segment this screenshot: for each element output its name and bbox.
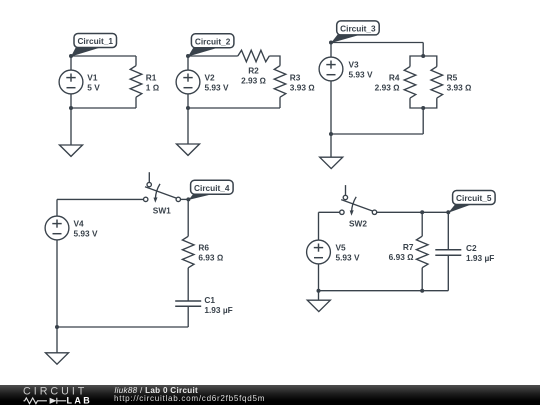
wire: switch to node: [180, 198, 188, 200]
wire: node to ground: [56, 327, 58, 353]
svg-text:V2: V2: [205, 73, 216, 83]
svg-text:5 V: 5 V: [87, 83, 100, 93]
wire: node to ground: [330, 134, 332, 157]
voltage source V3: [319, 57, 343, 81]
switch SW1: [144, 172, 181, 203]
wire bottom: node to R1: [71, 107, 136, 109]
node dot after switch: [186, 197, 190, 201]
svg-text:R2: R2: [248, 66, 259, 76]
junction dot parallel top: [421, 54, 425, 58]
svg-text:C2: C2: [466, 243, 477, 253]
wire: R5 bottom to junction: [423, 98, 437, 108]
svg-text:C1: C1: [204, 295, 215, 305]
svg-text:5.93 V: 5.93 V: [336, 253, 360, 263]
wire: V5 top stub: [318, 212, 320, 240]
svg-text:V1: V1: [87, 73, 98, 83]
node dot bottom-left: [329, 132, 333, 136]
node dot bottom: [69, 106, 73, 110]
node A dot top: [69, 54, 73, 58]
node dot bottom: [186, 106, 190, 110]
svg-text:V5: V5: [336, 243, 347, 253]
svg-text:6.93 Ω: 6.93 Ω: [198, 253, 223, 263]
svg-text:V4: V4: [74, 219, 85, 229]
svg-text:Circuit_3: Circuit_3: [340, 24, 376, 34]
resistor R3: [274, 66, 286, 98]
svg-text:Circuit_2: Circuit_2: [195, 37, 231, 47]
ground: [177, 144, 200, 155]
wire: V1 bottom to bottom node: [70, 94, 72, 108]
flag Circuit_1 box: [74, 34, 117, 48]
wire: corner down to C2: [447, 212, 449, 250]
svg-text:6.93 Ω: 6.93 Ω: [389, 252, 414, 262]
svg-text:1.93 µF: 1.93 µF: [466, 253, 494, 263]
junction dot R7 top: [420, 210, 424, 214]
wire: node to ground: [187, 108, 189, 144]
wire: node down to V1 top: [70, 56, 72, 70]
ground: [320, 157, 343, 168]
footer text: [110, 385, 410, 405]
svg-text:Circuit_4: Circuit_4: [194, 183, 230, 193]
wire top: node to parallel pair: [331, 42, 423, 44]
wire top: V4 to switch: [57, 198, 144, 200]
svg-text:R7: R7: [403, 242, 414, 252]
capacitor C2: [435, 250, 461, 256]
wire: V4 top stub: [56, 199, 58, 216]
svg-text:LAB: LAB: [67, 395, 93, 405]
svg-text:5.93 V: 5.93 V: [349, 70, 373, 80]
node dot top-left: [329, 41, 333, 45]
flag Circuit_4 box: [191, 180, 234, 194]
svg-text:2.93 Ω: 2.93 Ω: [241, 76, 266, 86]
switch SW2: [340, 185, 377, 216]
ground: [307, 300, 330, 311]
svg-text:R5: R5: [447, 73, 458, 83]
wire: node down to V3: [330, 43, 332, 58]
wire: top junction split left: [410, 56, 423, 67]
flag Circuit_2 pointer: [188, 48, 217, 57]
svg-text:5.93 V: 5.93 V: [74, 229, 98, 239]
wire top: node to R2: [188, 55, 238, 57]
wire: node down to V2 top: [187, 56, 189, 70]
node dot bottom-left: [317, 289, 321, 293]
node dot bottom-left: [55, 325, 59, 329]
svg-text:SW1: SW1: [153, 206, 171, 216]
wire: bottom junction down: [422, 108, 424, 134]
resistor R5: [431, 67, 443, 99]
svg-text:R3: R3: [290, 73, 301, 83]
capacitor C1: [175, 301, 201, 306]
resistor R6: [182, 236, 194, 267]
wire: C2 to bottom: [447, 255, 449, 290]
resistor R4: [404, 67, 416, 99]
footer banner (decorative): [0, 385, 540, 405]
wire top: node to R1: [71, 55, 136, 57]
wire: node to ground: [318, 291, 320, 301]
wire: R4 bottom to junction: [410, 98, 423, 108]
wire: node down to R6: [187, 199, 189, 236]
wire top: V5 to switch: [319, 211, 340, 213]
wire bottom: [188, 107, 280, 109]
voltage source V1: [59, 70, 83, 94]
svg-text:SW2: SW2: [349, 219, 367, 229]
svg-text:R1: R1: [146, 73, 157, 83]
ground: [46, 353, 69, 364]
svg-text:R6: R6: [198, 243, 209, 253]
voltage source V2: [176, 70, 200, 94]
CircuitLab logo: [0, 385, 110, 405]
svg-text:http://circuitlab.com/cd6r2fb5: http://circuitlab.com/cd6r2fb5fqd5m: [114, 394, 265, 403]
wire: V5 bottom to node: [318, 264, 320, 291]
junction dot parallel bottom: [421, 106, 425, 110]
flag Circuit_5 box: [453, 191, 496, 205]
wire: V2 bottom to node: [187, 94, 189, 108]
wire: V4 bottom to node: [56, 240, 58, 327]
flag Circuit_3 box: [337, 21, 380, 35]
ground: [60, 145, 83, 156]
svg-text:1 Ω: 1 Ω: [146, 83, 160, 93]
svg-text:Circuit_1: Circuit_1: [77, 36, 113, 46]
node dot top: [186, 54, 190, 58]
wire: R1 bottom stub: [135, 97, 137, 108]
voltage source V5: [307, 240, 331, 264]
svg-text:5.93 V: 5.93 V: [205, 83, 229, 93]
resistor R1: [130, 66, 142, 98]
svg-text:2.93 Ω: 2.93 Ω: [375, 83, 400, 93]
resistor R7: [416, 236, 428, 268]
flag Circuit_1 pointer: [71, 47, 100, 57]
wire: R3 bottom stub: [279, 97, 281, 108]
svg-text:Circuit_5: Circuit_5: [456, 193, 492, 203]
wire: top junction split right: [423, 56, 437, 67]
voltage source V4: [45, 216, 69, 240]
flag Circuit_4 pointer: [189, 194, 214, 200]
wire: down to top junction: [422, 43, 424, 57]
junction dot R7 bottom: [420, 289, 424, 293]
resistor R2: [238, 50, 269, 62]
wire bottom: [331, 133, 423, 135]
wire: R2 to corner to R3: [269, 56, 280, 66]
svg-text:R4: R4: [389, 73, 400, 83]
svg-text:1.93 µF: 1.93 µF: [204, 305, 232, 315]
wire: C1 to bottom: [187, 306, 189, 327]
wire: R6 to C1: [187, 268, 189, 301]
wire: V3 bottom to node: [330, 81, 332, 134]
svg-text:3.93 Ω: 3.93 Ω: [447, 83, 472, 93]
flag Circuit_5 pointer: [448, 204, 472, 213]
wire bottom: [319, 290, 449, 292]
wire: R1 top stub: [135, 56, 137, 66]
svg-text:3.93 Ω: 3.93 Ω: [290, 83, 315, 93]
wire: switch to C2 corner: [377, 211, 449, 213]
node dot C2 top corner: [446, 210, 450, 214]
wire: R7 bottom stub: [421, 268, 423, 291]
wire: node to ground: [70, 108, 72, 145]
flag Circuit_3 pointer: [331, 34, 361, 43]
wire: R7 top stub: [421, 212, 423, 236]
wire bottom: [57, 326, 188, 328]
svg-text:V3: V3: [349, 60, 360, 70]
flag Circuit_2 box: [191, 34, 234, 48]
